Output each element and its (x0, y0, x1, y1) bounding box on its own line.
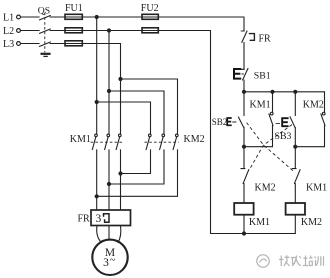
svg-text:QS: QS (38, 6, 50, 17)
svg-text:KM2: KM2 (301, 217, 322, 228)
svg-text:KM2: KM2 (303, 100, 324, 111)
svg-text:SB1: SB1 (254, 71, 271, 82)
svg-text:SB2: SB2 (212, 117, 228, 127)
svg-text:L1: L1 (3, 13, 14, 24)
svg-text:KM1: KM1 (250, 100, 271, 111)
svg-text:KM2: KM2 (184, 134, 205, 145)
svg-text:3: 3 (103, 257, 109, 269)
svg-text:FU1: FU1 (65, 3, 83, 14)
svg-text:SB3: SB3 (275, 131, 292, 142)
svg-text:~: ~ (110, 255, 116, 266)
svg-text:KM1: KM1 (306, 182, 327, 193)
svg-text:FR: FR (259, 33, 272, 44)
svg-text:KM1: KM1 (70, 134, 91, 145)
svg-text:L3: L3 (3, 39, 14, 50)
svg-text:FU2: FU2 (141, 3, 159, 14)
svg-text:KM1: KM1 (249, 217, 270, 228)
svg-text:L2: L2 (3, 26, 14, 37)
svg-text:3: 3 (96, 213, 102, 225)
svg-text:KM2: KM2 (255, 182, 276, 193)
svg-text:FR: FR (78, 213, 91, 224)
